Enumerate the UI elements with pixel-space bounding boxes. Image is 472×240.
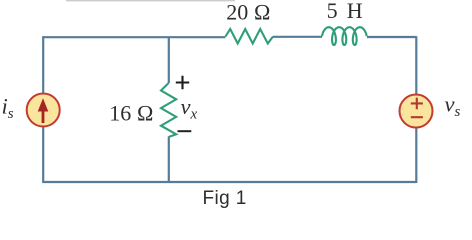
- wire: left branch upper (top corner down to current source): [42, 36, 44, 93]
- wire: middle branch upper (top node to 16-ohm resistor): [168, 37, 170, 83]
- label: plus polarity of vx: [176, 76, 189, 90]
- inductor 5 H coil: [322, 27, 367, 45]
- wire: left branch lower (current source to bottom corner): [42, 127, 44, 184]
- svg-text:vs: vs: [445, 92, 461, 121]
- wire: right branch upper (top corner down to voltage source): [415, 36, 417, 94]
- wire: bottom rail: [43, 181, 416, 183]
- wire: middle branch lower (16-ohm resistor to bottom node): [168, 137, 170, 183]
- wire: top-left segment (left corner to 20-ohm resistor): [43, 36, 225, 38]
- current source Is (circle with up arrow): [27, 94, 60, 127]
- svg-text:is: is: [2, 94, 14, 123]
- resistor 20-ohm zigzag: [226, 29, 274, 44]
- wire: top-right segment (inductor to right corner): [367, 36, 416, 38]
- svg-text:16 Ω: 16 Ω: [109, 100, 153, 125]
- wire: top segment between 20-ohm resistor and 5 H inductor: [273, 36, 322, 38]
- label: minus polarity of vx: [178, 130, 192, 132]
- wire: right branch lower (voltage source to bottom corner): [415, 128, 417, 184]
- svg-text:5 H: 5 H: [327, 0, 365, 23]
- svg-text:Fig 1: Fig 1: [203, 188, 247, 209]
- stray cropped line at top edge: [66, 0, 235, 2]
- svg-text:vx: vx: [181, 94, 198, 123]
- resistor 16-ohm zigzag: [161, 83, 176, 137]
- svg-text:20 Ω: 20 Ω: [226, 0, 270, 25]
- voltage source Vs (circle with plus/minus): [400, 95, 433, 128]
